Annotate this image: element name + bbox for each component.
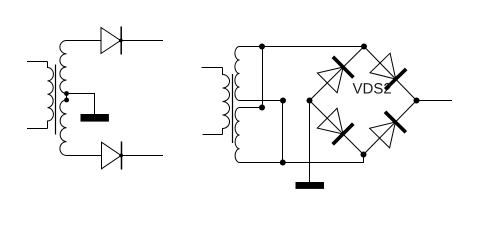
ground GND2	[296, 182, 325, 189]
diode VDS2-3 triangle	[317, 108, 343, 134]
junction dot center tap upper	[64, 91, 69, 96]
junction dot top tie	[259, 44, 265, 50]
wire bridge edge left-bottom	[310, 101, 364, 155]
wire bridge left node to ground	[309, 101, 311, 183]
junction dot bridge top node	[361, 44, 367, 50]
label VDS2	[353, 83, 391, 94]
junction dot D2 cathode	[119, 154, 123, 158]
transformer T2 secondary winding upper	[235, 47, 240, 101]
diode VDS2-2 cathode bar	[385, 69, 406, 89]
transformer T2 primary winding	[223, 68, 230, 135]
junction dot D1 cathode	[119, 39, 123, 43]
diode VDS2-3 cathode bar	[333, 124, 354, 145]
transformer T1 primary winding	[48, 62, 54, 129]
wire bridge edge bottom-right	[364, 101, 417, 155]
wire bridge right node to output	[417, 100, 453, 102]
diode VDS2-2 triangle	[370, 53, 396, 79]
junction dot bridge right node	[414, 98, 420, 104]
diode VDS2-4 triangle	[370, 122, 396, 148]
transformer T1 secondary winding lower half	[60, 100, 67, 156]
wire T1 primary bottom lead	[27, 128, 48, 130]
wire secondary bottom to D2 anode	[67, 155, 102, 157]
ground GND1	[81, 114, 109, 122]
junction dot bottom tie	[280, 160, 286, 166]
wire secondary lower top lead	[240, 107, 263, 109]
junction dot bridge bottom node	[361, 152, 367, 158]
wire center tap to ground	[67, 94, 95, 115]
wire T1 primary top lead	[27, 61, 48, 63]
wire D1 cathode to output	[121, 40, 163, 42]
wire secondary upper top to bridge top node	[240, 46, 365, 48]
junction dot center tap lower	[64, 98, 69, 103]
wire secondary bottom to bridge bottom node	[240, 155, 364, 163]
wire T2 primary bottom lead	[203, 134, 223, 136]
wire T1 center tap spine segment	[66, 93, 68, 100]
wire T2 primary top lead	[202, 67, 223, 69]
diode D1 cathode bar	[120, 27, 122, 55]
transformer T2 secondary winding lower	[235, 108, 239, 163]
diode D2 cathode bar	[121, 142, 123, 170]
wire D2 cathode to output	[122, 155, 164, 157]
diode VDS2-1 triangle	[317, 67, 343, 93]
diode VDS2-4 cathode bar	[385, 112, 406, 133]
transformer T2 core	[232, 74, 234, 143]
wire bridge edge left-top	[310, 47, 365, 101]
wire vertical tie upper-top to lower-top	[262, 47, 264, 108]
wire secondary upper bottom lead	[240, 100, 283, 102]
transformer T1 core	[55, 65, 57, 135]
diode VDS2-1 cathode bar	[333, 57, 354, 78]
junction dot lower winding top	[259, 105, 265, 111]
transformer T1 secondary winding upper half	[60, 41, 67, 94]
wire bridge edge top-right	[364, 47, 417, 101]
diode D1 triangle	[101, 28, 121, 54]
junction dot bridge left node	[307, 98, 313, 104]
junction dot upper winding bottom	[280, 98, 286, 104]
wire vertical tie upper-bottom to lower-bottom	[282, 101, 284, 163]
diode D2 triangle	[102, 142, 122, 169]
wire secondary top to D1 anode	[67, 40, 102, 42]
